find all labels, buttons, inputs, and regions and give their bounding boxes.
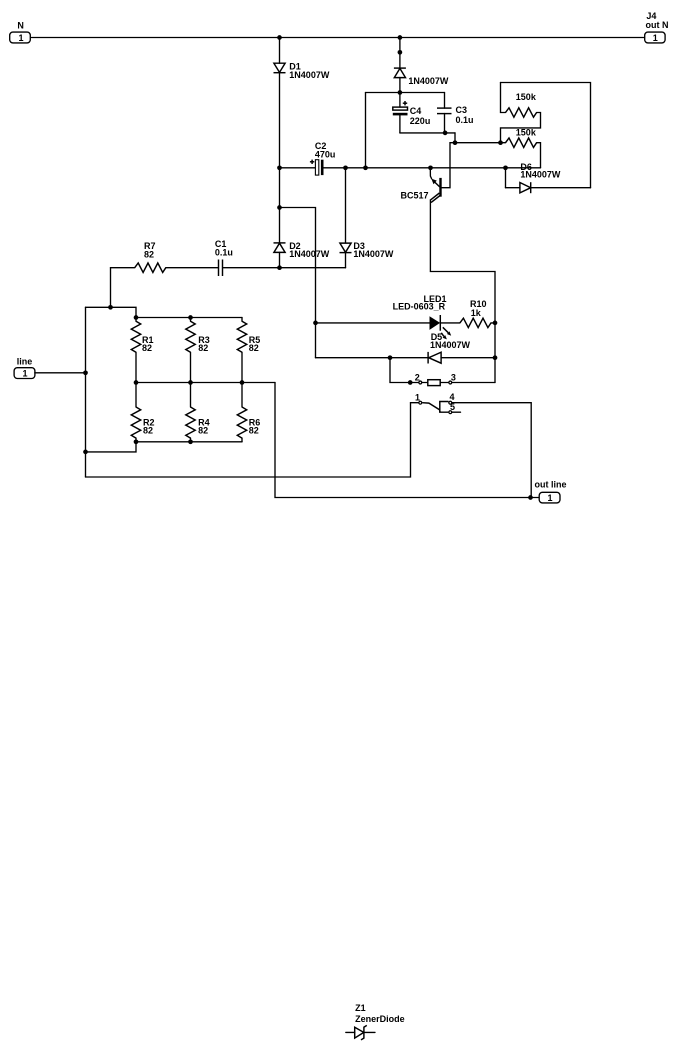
node C2 left xyxy=(277,165,282,170)
node D5 left xyxy=(388,355,393,360)
svg-text:BC517: BC517 xyxy=(401,190,429,200)
node jog left xyxy=(83,450,88,455)
svg-text:5: 5 xyxy=(450,402,455,412)
node 150k lower left xyxy=(498,140,503,145)
svg-text:470u: 470u xyxy=(315,150,336,160)
node R4 bottom xyxy=(188,439,193,444)
wire jog to left vertical xyxy=(86,442,137,452)
svg-text:C3: C3 xyxy=(456,105,468,115)
node out line xyxy=(528,495,533,500)
connector J4 out N xyxy=(645,11,669,43)
wire y167 main xyxy=(346,167,541,169)
wire 150k loop top and right xyxy=(501,83,591,188)
node line port xyxy=(83,370,88,375)
svg-text:82: 82 xyxy=(249,343,259,353)
wire C4 bottom horizontal xyxy=(400,132,455,134)
node R1 top xyxy=(134,315,139,320)
wire R7 left down xyxy=(110,268,112,308)
fuse F1 pins 2-3 xyxy=(410,372,495,385)
svg-text:1N4007W: 1N4007W xyxy=(289,249,330,259)
wire bottom long y476 xyxy=(86,403,411,477)
node D5 right xyxy=(493,355,498,360)
svg-text:82: 82 xyxy=(198,426,208,436)
zener diode Z1 xyxy=(346,1003,405,1040)
resistor R4 xyxy=(186,383,210,442)
wire left loop vertical x365 xyxy=(365,93,367,168)
diode D1 xyxy=(274,62,330,81)
svg-text:out N: out N xyxy=(646,20,669,30)
resistor R5 xyxy=(237,318,260,383)
node branch 207 xyxy=(277,205,282,210)
svg-text:0.1u: 0.1u xyxy=(456,115,474,125)
connector out line xyxy=(531,479,567,503)
node top rail / D4 xyxy=(398,35,403,40)
svg-text:150k: 150k xyxy=(516,92,537,102)
node R10 right xyxy=(493,321,498,326)
svg-text:Z1: Z1 xyxy=(355,1003,366,1013)
resistor R6 xyxy=(237,383,260,442)
svg-text:0.1u: 0.1u xyxy=(215,247,233,257)
capacitor C3 xyxy=(437,93,474,133)
svg-text:82: 82 xyxy=(144,250,154,260)
svg-text:1: 1 xyxy=(22,369,27,379)
node D3 top xyxy=(343,165,348,170)
svg-text:1: 1 xyxy=(415,393,420,403)
svg-text:3: 3 xyxy=(451,372,456,382)
resistor R2 xyxy=(131,383,154,442)
resistor 150k upper xyxy=(501,83,541,143)
wire y267 to D3 xyxy=(280,267,346,269)
diode D3 xyxy=(340,168,394,268)
svg-text:1N4007W: 1N4007W xyxy=(430,340,471,350)
node D2 bottom xyxy=(277,265,282,270)
wire pin4 to out line xyxy=(452,403,531,498)
resistor R7 xyxy=(111,241,218,272)
switch S1 xyxy=(411,392,461,414)
svg-text:82: 82 xyxy=(249,426,259,436)
resistor R10 xyxy=(440,299,495,328)
svg-text:1: 1 xyxy=(653,33,658,43)
wire D5 left down to fuse xyxy=(390,358,410,383)
svg-text:82: 82 xyxy=(198,343,208,353)
capacitor C2 xyxy=(280,141,346,175)
diode D6 xyxy=(506,162,591,193)
node C4 top xyxy=(398,90,403,95)
svg-text:150k: 150k xyxy=(516,128,537,138)
wire base net down to transistor base xyxy=(442,143,456,188)
node R3 top xyxy=(188,315,193,320)
transistor Q1 BC517 xyxy=(401,168,442,203)
capacitor C1 xyxy=(215,239,280,276)
svg-text:1N4007W: 1N4007W xyxy=(353,249,394,259)
svg-text:C4: C4 xyxy=(410,106,422,116)
node C3/C4 bottom xyxy=(443,131,448,136)
node R1 bottom xyxy=(134,380,139,385)
wire base net to 150k xyxy=(455,142,501,144)
wire branch 207 to LED loop xyxy=(280,208,316,358)
svg-text:1k: 1k xyxy=(471,308,482,318)
wire D1 branch upper xyxy=(279,38,281,64)
wire middle rail down right xyxy=(275,383,531,498)
wire top rail N to J4 xyxy=(32,37,646,39)
svg-text:82: 82 xyxy=(143,426,153,436)
node R3 bottom xyxy=(188,380,193,385)
wire left vertical x85 xyxy=(85,307,87,477)
svg-text:1: 1 xyxy=(18,33,23,43)
diode LED1 xyxy=(316,294,452,340)
diode D4 1N4007W xyxy=(394,68,449,86)
resistor 150k lower xyxy=(501,128,541,168)
diode D2 xyxy=(274,241,330,268)
wire bottom rail xyxy=(136,441,242,443)
wire middle rail xyxy=(136,382,275,384)
node R2 bottom xyxy=(134,439,139,444)
wire D1 to D2 vertical xyxy=(279,73,281,243)
resistor R3 xyxy=(186,318,210,383)
diode D5 xyxy=(316,332,496,364)
svg-text:ZenerDiode: ZenerDiode xyxy=(355,1014,405,1024)
svg-text:1N4007W: 1N4007W xyxy=(289,70,330,80)
svg-text:1: 1 xyxy=(547,493,552,503)
node top rail / D1 xyxy=(277,35,282,40)
wire top rail resistors xyxy=(136,317,242,319)
svg-text:82: 82 xyxy=(142,343,152,353)
connector N xyxy=(10,20,31,43)
node base net xyxy=(453,140,458,145)
wire corner to base net xyxy=(454,133,456,143)
svg-text:N: N xyxy=(17,20,24,30)
connector line xyxy=(14,357,85,379)
node left loop bottom xyxy=(363,165,368,170)
node fuse left xyxy=(408,380,413,385)
svg-text:line: line xyxy=(17,357,33,367)
svg-text:2: 2 xyxy=(415,373,420,383)
node y307 xyxy=(108,305,113,310)
node LED left xyxy=(313,321,318,326)
svg-text:LED-0603_R: LED-0603_R xyxy=(393,301,446,311)
svg-text:1N4007W: 1N4007W xyxy=(408,76,449,86)
resistor R1 xyxy=(131,318,153,383)
node pin joint D4 xyxy=(398,50,403,55)
svg-text:220u: 220u xyxy=(410,116,431,126)
wire collector down xyxy=(430,201,495,383)
svg-text:out line: out line xyxy=(535,479,567,489)
capacitor C4 xyxy=(393,93,431,133)
svg-text:1N4007W: 1N4007W xyxy=(520,170,561,180)
node R5 bottom xyxy=(240,380,245,385)
node BC517 emitter xyxy=(428,165,433,170)
svg-text:4: 4 xyxy=(450,392,455,402)
node D6 branch xyxy=(503,165,508,170)
wire y307 xyxy=(86,307,137,317)
wire y92 horizontal xyxy=(366,92,445,94)
wire D4 stub xyxy=(399,38,401,68)
wire D4 to y92 xyxy=(399,78,401,93)
